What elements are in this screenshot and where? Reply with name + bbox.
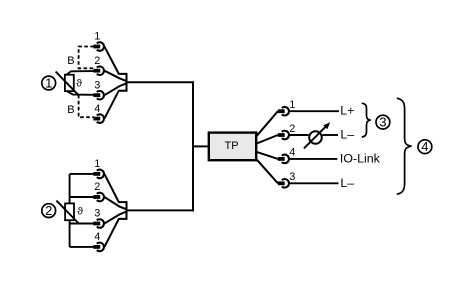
- wire group2 left bus upper segment: [69, 174, 71, 204]
- pin number 2 (group2): [94, 181, 100, 193]
- pin number 1 (output): [289, 99, 295, 111]
- sensor 1 circled label: [42, 76, 56, 91]
- svg-text:4: 4: [94, 103, 100, 115]
- svg-text:4: 4: [94, 231, 100, 243]
- label L- (lower): [340, 176, 354, 190]
- wire vertical bus joining sensors: [192, 81, 194, 211]
- connector socket group2 pin 3: [93, 219, 104, 228]
- brace grouping all output pins: [397, 98, 412, 194]
- svg-text:3: 3: [289, 171, 295, 183]
- svg-text:L–: L–: [340, 176, 354, 190]
- svg-text:2: 2: [289, 123, 295, 135]
- wire funnel1 output to bus: [127, 81, 195, 83]
- connector socket output pin 1: [278, 107, 289, 116]
- wire RTD1 top lead to pin 2: [67, 71, 94, 75]
- connector socket group1 pin 1: [93, 42, 104, 51]
- connector socket output pin 2: [278, 131, 289, 140]
- wire TP to output pin 4: [256, 152, 278, 159]
- RTD R1 temperature label theta: [76, 77, 82, 89]
- TP evaluation box U1: [209, 133, 256, 161]
- cable merge funnel group1: [104, 47, 126, 119]
- svg-text:2: 2: [94, 55, 100, 67]
- circled label 4: [418, 139, 432, 154]
- pin number 4 (output): [289, 147, 295, 159]
- svg-text:1: 1: [289, 99, 295, 111]
- bridge B label (upper): [67, 55, 74, 67]
- connector socket group2 pin 4: [93, 243, 104, 252]
- wire IO-Link line: [289, 158, 337, 160]
- svg-text:B: B: [67, 104, 74, 116]
- wire TP to output pin 1: [256, 111, 278, 137]
- bridge B label (lower): [67, 104, 74, 116]
- wire group2 left bus lower segment: [69, 220, 71, 247]
- connector socket group1 pin 4: [93, 114, 104, 123]
- brace grouping pins 1-2: [362, 103, 371, 137]
- pin number 3 (group2): [94, 208, 100, 220]
- connector socket output pin 4: [278, 155, 289, 164]
- pin number 4 (group2): [94, 231, 100, 243]
- svg-text:4: 4: [421, 139, 428, 154]
- wire L- line (left of meter): [289, 134, 308, 136]
- svg-text:3: 3: [379, 115, 386, 130]
- svg-text:ϑ: ϑ: [76, 77, 82, 89]
- svg-text:B: B: [67, 55, 74, 67]
- connector socket group1 pin 2: [93, 66, 104, 75]
- svg-text:L–: L–: [340, 128, 354, 142]
- wire group2 to pin 3: [70, 223, 94, 225]
- svg-text:ϑ: ϑ: [77, 206, 83, 218]
- wire bus to TP box: [193, 145, 209, 147]
- svg-text:TP: TP: [224, 140, 238, 152]
- wire TP to output pin 3: [256, 158, 278, 183]
- pin number 2 (output): [289, 123, 295, 135]
- wire L- line (bottom): [289, 182, 338, 184]
- pin number 2 (group1): [94, 55, 100, 67]
- RTD R1 diagonal stroke: [56, 72, 79, 96]
- RTD R2 diagonal stroke: [56, 201, 79, 224]
- bridge B (pin1 to pin2, dashed): [79, 47, 94, 69]
- connector socket group1 pin 3: [93, 91, 104, 100]
- pin number 1 (group2): [94, 158, 100, 170]
- bridge B (pin3 to pin4, dashed): [79, 95, 94, 117]
- connector socket group2 pin 1: [93, 170, 104, 179]
- wire group2 to pin 4: [70, 246, 94, 248]
- svg-text:3: 3: [94, 208, 100, 220]
- RTD thermometer R2 (rectangle): [65, 203, 74, 220]
- label L- (upper): [340, 128, 354, 142]
- svg-text:1: 1: [94, 158, 100, 170]
- analog output meter symbol: [304, 122, 330, 148]
- wire L+ line: [289, 110, 339, 112]
- svg-text:2: 2: [94, 181, 100, 193]
- wire TP to output pin 2: [256, 135, 278, 144]
- svg-text:4: 4: [289, 147, 295, 159]
- label IO-Link: [340, 151, 381, 165]
- RTD thermometer R1 (rectangle): [65, 75, 74, 91]
- RTD R2 temperature label theta: [77, 206, 83, 218]
- label L+: [340, 104, 354, 118]
- pin number 3 (group1): [94, 79, 100, 91]
- pin number 1 (group1): [94, 31, 100, 43]
- sensor 2 circled label: [42, 203, 56, 218]
- wire group2 to pin 1: [70, 173, 94, 175]
- pin number 3 (output): [289, 171, 295, 183]
- svg-text:3: 3: [94, 79, 100, 91]
- svg-text:1: 1: [45, 76, 52, 91]
- wire L- line (right of meter): [323, 134, 339, 136]
- svg-text:IO-Link: IO-Link: [340, 151, 381, 165]
- svg-text:2: 2: [45, 203, 52, 218]
- wire RTD1 bottom lead to pin 3: [67, 91, 94, 95]
- svg-text:L+: L+: [340, 104, 354, 118]
- wire funnel2 output to bus: [127, 209, 195, 211]
- connector socket output pin 3: [278, 179, 289, 188]
- circled label 3: [376, 115, 390, 130]
- wire group2 to pin 2: [70, 196, 94, 198]
- connector socket group2 pin 2: [93, 193, 104, 202]
- svg-text:1: 1: [94, 31, 100, 43]
- cable merge funnel group2: [104, 174, 126, 247]
- pin number 4 (group1): [94, 103, 100, 115]
